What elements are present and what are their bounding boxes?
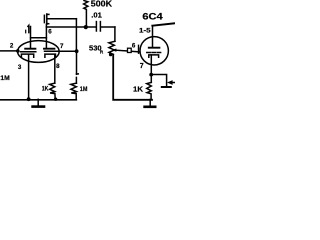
ground symbol left [37, 99, 39, 105]
potentiometer R4 volume [109, 41, 115, 54]
connector open square [128, 48, 132, 52]
wire plate node horizontal [46, 26, 96, 28]
triode2 plate bar [44, 48, 54, 50]
ground symbol right [149, 99, 151, 105]
label pin1 [26, 25, 29, 33]
node cathode1 ground dot [27, 97, 31, 101]
svg-text:500K: 500K [91, 0, 113, 8]
cathode2 lead pin8 [54, 55, 56, 83]
plate bar 6C4 [149, 47, 160, 49]
svg-text:1K: 1K [42, 87, 49, 93]
node input junction dot [16, 49, 20, 53]
node pot bottom dot [109, 53, 112, 56]
wire ground bus left [0, 99, 76, 101]
capacitor C1 left plate [43, 15, 45, 22]
resistor R2 1M grid2 [76, 51, 78, 74]
svg-text:6C4: 6C4 [142, 12, 163, 22]
wire grid2 pin7 [59, 50, 77, 52]
plate lead 6C4 [152, 26, 154, 47]
wire B+ top [152, 23, 175, 25]
svg-text:8: 8 [56, 63, 60, 70]
wire wiper to grid 6C4 [116, 50, 139, 52]
node grid2 junction dot [75, 49, 79, 53]
tube V1 envelope (dual triode) [18, 41, 60, 63]
output terminal baseline [162, 86, 171, 88]
cathode1 [21, 54, 33, 57]
cathode2 [45, 54, 56, 57]
cathode lead 6C4 [150, 55, 152, 82]
triode1 plate bar [25, 48, 35, 50]
triode2 plate lead pin6 [45, 24, 47, 48]
resistor R1 1K cathode [50, 83, 56, 99]
svg-text:2: 2 [10, 42, 14, 49]
wire C2 to pot [101, 26, 115, 28]
resistor R5 1K cathode 6C4 [147, 82, 152, 99]
wire bus vertical to grid2 [75, 19, 77, 52]
wire pot bottom lead [113, 55, 152, 100]
triode1 plate lead pin1 [30, 27, 32, 49]
cathode 6C4 [149, 55, 159, 57]
svg-text:3: 3 [18, 64, 22, 71]
wire pot top lead [114, 27, 116, 41]
node plate-R3 junction dot [84, 25, 88, 29]
resistor R3 500K plate load [84, 1, 88, 28]
grid2 dashed [45, 50, 58, 52]
capacitor C1 right plate [47, 14, 49, 24]
svg-text:7: 7 [60, 43, 64, 50]
node cathode junction dot [149, 73, 153, 77]
capacitor C2 .01 [95, 22, 97, 31]
svg-text:1-5: 1-5 [139, 28, 151, 35]
cathode1 lead pin3 [28, 55, 30, 99]
output arrow [167, 80, 173, 85]
node R1 ground dot [54, 98, 57, 101]
svg-text:1M: 1M [80, 86, 88, 93]
wire output tap [151, 75, 167, 87]
grid1 dashed [21, 51, 37, 53]
grid terminal bar 6C4 [138, 45, 140, 53]
wire C1 to bus [47, 18, 76, 20]
wire plate jumper [31, 37, 47, 39]
grid dashed 6C4 [147, 52, 161, 54]
svg-text:.01: .01 [91, 11, 102, 20]
svg-text:1K: 1K [133, 85, 144, 94]
svg-text:6: 6 [48, 28, 52, 35]
svg-text:530: 530 [89, 43, 102, 52]
svg-text:1M: 1M [0, 75, 10, 82]
svg-text:6: 6 [132, 43, 136, 50]
svg-text:7: 7 [140, 63, 144, 70]
tube V2 6C4 envelope [140, 37, 168, 65]
wire input grid1 [0, 50, 18, 52]
pot wiper arrow [112, 49, 117, 52]
